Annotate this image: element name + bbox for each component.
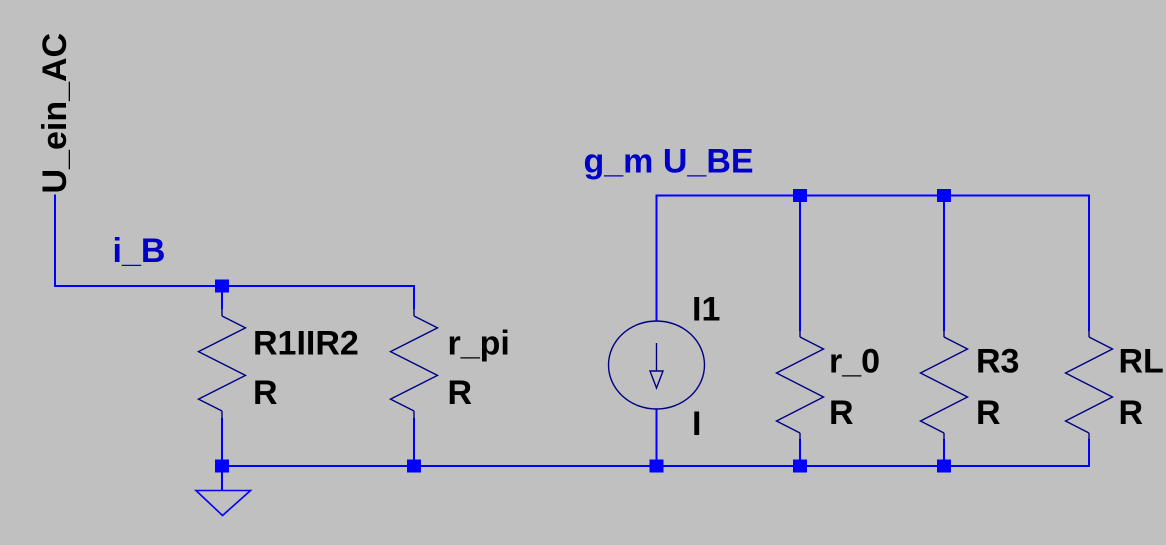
svg-text:R: R [829,394,854,432]
node junction bottom r_pi [407,460,421,473]
node junction i_B [215,280,229,293]
wire r_pi top stub [413,285,415,309]
svg-text:R: R [253,374,278,412]
wire ground stub [221,466,223,490]
wire bottom rail [221,465,1090,467]
svg-text:R3: R3 [976,343,1019,381]
svg-text:I: I [692,405,701,443]
resistor R3 body [921,330,968,440]
current source I1 circle [609,321,705,409]
wire current source top [656,195,658,322]
node junction bottom R1IIR2/ground [215,460,229,473]
node junction bottom R3 [937,460,951,473]
svg-text:RL: RL [1119,343,1164,381]
node junction top rail R3 [937,189,951,202]
resistor RL body [1066,330,1113,440]
node junction bottom r_0 [793,460,807,473]
resistor r_pi body [391,308,438,419]
svg-text:R: R [448,374,473,412]
resistor r_0 body [777,330,824,440]
current source I1 arrow [650,343,663,388]
wire i_B rail [54,285,415,287]
wire R3 top [943,196,945,332]
svg-text:U_ein_AC: U_ein_AC [36,33,74,194]
wire r_pi bottom stub [413,418,415,467]
ground [196,491,251,516]
resistor R1IIR2 body [199,308,246,419]
node junction top rail r_0 [793,189,807,202]
node junction bottom current source [650,460,664,473]
svg-text:I1: I1 [692,291,720,329]
svg-text:r_pi: r_pi [448,325,510,363]
svg-text:i_B: i_B [113,232,166,270]
svg-text:r_0: r_0 [829,343,880,381]
svg-text:g_m U_BE: g_m U_BE [584,143,754,181]
wire r_0 top [799,196,801,332]
svg-text:R: R [976,394,1001,432]
svg-text:R: R [1119,394,1144,432]
wire current source bottom [656,409,658,468]
wire RL bottom [1088,439,1090,467]
wire R3 bottom [943,439,945,467]
wire R1IIR2 top stub [221,286,223,309]
wire RL top [1088,195,1090,332]
wire r_0 bottom [799,439,801,467]
wire U_ein_AC vertical [54,195,56,288]
wire g_m U_BE top rail [656,195,1091,197]
wire R1IIR2 bottom stub [221,418,223,467]
svg-text:R1IIR2: R1IIR2 [253,325,359,363]
